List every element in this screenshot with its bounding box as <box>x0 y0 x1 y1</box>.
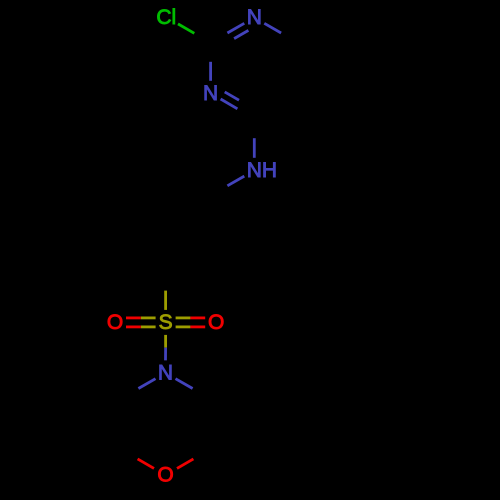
double bond N1=C2 main <box>227 23 244 33</box>
svg-text:N: N <box>203 82 218 105</box>
bond C2-N3 <box>209 62 212 81</box>
double bond N1=C2 inner <box>234 30 248 38</box>
svg-text:N: N <box>247 6 262 29</box>
svg-text:O: O <box>208 311 224 334</box>
double bond S=O right <box>176 316 206 319</box>
svg-text:O: O <box>157 464 173 487</box>
bond S-N morpholine <box>164 335 167 361</box>
svg-text:NH: NH <box>247 159 277 182</box>
bond O-C morpholine left <box>138 459 154 469</box>
bond C4-NH <box>253 138 256 158</box>
svg-text:N: N <box>158 362 173 385</box>
svg-text:O: O <box>107 311 123 334</box>
svg-text:Cl: Cl <box>156 6 176 29</box>
bond C6-N1 <box>264 23 281 33</box>
double bond N3=C4 inner <box>225 92 239 100</box>
svg-text:S: S <box>159 311 173 334</box>
bond O-C morpholine right <box>177 459 193 469</box>
bond N-C morpholine right <box>176 379 193 389</box>
double bond S=O right <box>176 325 206 328</box>
double bond S=O left <box>126 325 156 328</box>
bond Cl-C2 <box>178 24 194 33</box>
bond N-C morpholine left <box>138 379 155 389</box>
double bond N3=C4 main <box>221 99 238 109</box>
double bond S=O left <box>126 316 156 319</box>
bond C3-S <box>164 291 167 310</box>
bond NH-C1 <box>227 176 244 186</box>
